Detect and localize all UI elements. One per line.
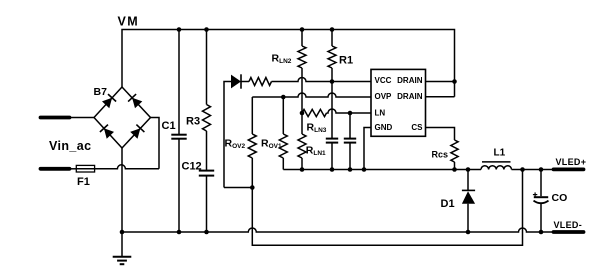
junction LN/C2	[348, 111, 353, 116]
diode D1	[462, 189, 475, 191]
junction rail/C12	[204, 230, 209, 235]
wire AC upper to bridge left vertex	[70, 117, 95, 119]
bridge B7 diode top-right	[132, 98, 142, 108]
svg-text:C1: C1	[162, 120, 176, 132]
wire output link to VCC diode	[224, 82, 231, 188]
svg-text:Vin_ac: Vin_ac	[49, 139, 91, 153]
wire main bus ROV1 to L1	[283, 169, 481, 171]
bridge B7 arm bottom-left wire	[94, 118, 122, 149]
bridge B7 arm top-left wire	[94, 87, 122, 118]
junction bus/LN cap	[348, 167, 353, 172]
wire Rcs to bus	[454, 162, 456, 170]
capacitor C1	[171, 134, 186, 136]
wire C12 to ground rail	[206, 176, 208, 232]
wire ground rail (hops over ROV2 and output return)	[122, 228, 554, 232]
wire VM to R3	[206, 30, 208, 105]
wire RLN2 to LN node	[301, 68, 303, 113]
diode VCC charge	[231, 75, 241, 89]
svg-text:GND: GND	[375, 123, 393, 132]
junction output/CO	[539, 167, 544, 172]
resistor R3	[203, 105, 211, 132]
svg-text:VCC: VCC	[375, 76, 392, 85]
wire output to CO	[540, 170, 542, 197]
svg-text:F1: F1	[77, 176, 90, 188]
svg-text:CS: CS	[411, 123, 423, 132]
wire VM rail from bridge top to DRAIN drop	[122, 30, 455, 97]
wire bus to D1	[467, 170, 469, 191]
wire VCC to IC (hops over RLN2 column)	[272, 78, 372, 82]
wire LN cap to bus	[349, 143, 351, 170]
resistor RLN1	[298, 134, 306, 158]
wire OVP line (hops over RLN2 and R1 columns)	[252, 93, 371, 97]
op-amp U1 controller box	[371, 69, 426, 136]
resistor ROV2	[248, 134, 256, 158]
junction bus/GND	[362, 167, 367, 172]
resistor R1	[328, 46, 336, 68]
svg-text:D1: D1	[441, 198, 455, 210]
junction rail/C1	[177, 230, 182, 235]
wire R3 to C12	[206, 131, 208, 171]
svg-text:R1: R1	[339, 55, 353, 67]
wire CS pin to Rcs	[426, 128, 455, 141]
wire AC lower to fuse	[70, 168, 77, 170]
svg-text:DRAIN: DRAIN	[397, 92, 423, 101]
terminal AC input lower	[41, 167, 70, 171]
wire RLN2 to RLN1	[301, 113, 303, 134]
wire L1 to output node	[512, 169, 554, 171]
wire RLN3 to IC LN pin (hops over R1 column)	[327, 109, 372, 113]
junction OVP/ROV1	[281, 95, 286, 100]
resistor VCC series	[249, 78, 272, 86]
junction bus/VCC cap	[330, 167, 335, 172]
wire diode to VCC resistor	[241, 81, 249, 83]
junction LN/RLN2	[300, 111, 305, 116]
svg-text:Rcs: Rcs	[432, 150, 449, 160]
fuse F1	[76, 165, 94, 172]
wire ROV2 to return path	[252, 158, 522, 245]
ground symbol	[121, 232, 123, 257]
junction rail/D1	[466, 230, 471, 235]
wire VM to RLN2	[301, 30, 303, 47]
bridge B7 diode top-left	[102, 98, 112, 108]
bridge B7 diode bottom-right	[130, 128, 140, 138]
wire RLN1 to bus	[301, 158, 303, 170]
wire OVP to ROV2	[251, 97, 253, 134]
wire R1 to VCC	[331, 68, 333, 82]
terminal VLED+	[554, 167, 584, 171]
capacitor CO plus sign	[533, 194, 537, 196]
junction VCC/R1	[330, 79, 335, 84]
junction VM/R3	[204, 27, 209, 32]
svg-text:OVP: OVP	[375, 92, 393, 101]
bridge B7 arm top-right wire	[122, 87, 151, 118]
wire VCC to C2a cap	[331, 82, 333, 139]
wire OVP to ROV1	[282, 97, 284, 134]
terminal AC input upper	[41, 116, 70, 120]
junction VM/C1	[177, 27, 182, 32]
resistor RLN3	[302, 109, 327, 116]
wire LN to LN cap	[349, 113, 351, 139]
wire C1 to ground rail	[178, 139, 180, 232]
svg-text:R3: R3	[186, 116, 200, 128]
junction link/ROV2 column	[250, 185, 255, 190]
junction output node	[520, 167, 525, 172]
junction DRAIN1/VM drop	[452, 79, 457, 84]
wire DRAIN2 to VM drop	[426, 96, 455, 98]
wire VCC cap to bus	[331, 143, 333, 170]
svg-text:B7: B7	[94, 86, 108, 98]
junction bus/Rcs	[452, 167, 457, 172]
inductor L1	[481, 166, 512, 170]
svg-text:C12: C12	[182, 161, 202, 173]
wire fuse to bridge right vertex (hops over bridge-bottom wire)	[95, 165, 159, 169]
junction VM/RLN2	[300, 27, 305, 32]
bridge B7 diode bottom-left	[104, 128, 114, 138]
wire VM to R1	[331, 30, 333, 47]
wire D1 to VLED- rail	[467, 204, 469, 232]
resistor ROV1	[279, 134, 287, 158]
wire CO to VLED- rail	[540, 204, 542, 232]
terminal VLED-	[554, 230, 584, 234]
resistor Rcs	[451, 140, 458, 162]
wire GND pin to bus	[364, 128, 371, 170]
svg-text:VM: VM	[118, 15, 140, 29]
resistor RLN2	[298, 46, 306, 68]
bridge B7 arm bottom-right wire	[122, 118, 151, 149]
wire bridge bottom to ground rail	[121, 148, 123, 232]
wire ROV1 to bus	[282, 158, 284, 170]
wire VM to C1	[178, 30, 180, 135]
svg-text:LN: LN	[375, 108, 386, 117]
wire diode column to output link	[224, 187, 252, 189]
capacitor LN filter	[344, 138, 356, 140]
junction bus/RLN1	[300, 167, 305, 172]
junction rail/CO	[539, 230, 544, 235]
svg-text:VLED+: VLED+	[556, 157, 587, 167]
junction bus/D1	[466, 167, 471, 172]
svg-text:L1: L1	[494, 148, 506, 159]
svg-text:VLED-: VLED-	[554, 220, 583, 230]
capacitor VCC bypass	[326, 138, 338, 140]
svg-text:CO: CO	[552, 192, 568, 204]
junction rail/bridge ground	[120, 230, 125, 235]
capacitor C12	[199, 170, 214, 172]
svg-text:DRAIN: DRAIN	[397, 76, 423, 85]
junction VM/R1	[330, 27, 335, 32]
capacitor CO	[534, 196, 548, 198]
wire DRAIN1 to VM drop	[426, 81, 455, 83]
